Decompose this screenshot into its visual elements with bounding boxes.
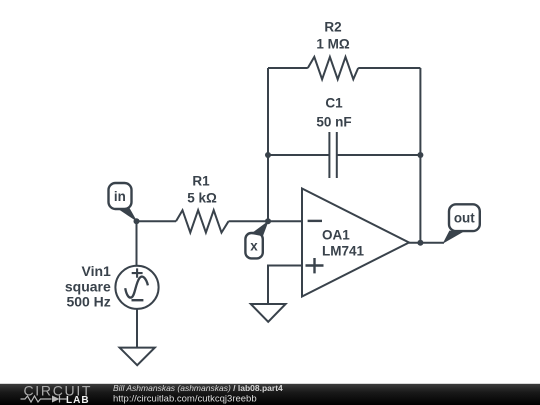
wire in-node to R1 bbox=[137, 220, 177, 222]
svg-text:square: square bbox=[65, 278, 111, 294]
svg-text:R2: R2 bbox=[324, 20, 341, 35]
footer bar bbox=[0, 384, 540, 405]
junction dot node x bbox=[265, 218, 271, 224]
node label box in bbox=[109, 183, 132, 209]
voltage source sine wave bbox=[125, 277, 148, 298]
wire right vertical feedback bbox=[419, 68, 421, 243]
wire top left to R2 bbox=[268, 67, 308, 69]
svg-text:OA1: OA1 bbox=[322, 227, 350, 242]
pointer from out label to wire bbox=[443, 231, 464, 244]
logo diode triangle bbox=[52, 396, 60, 403]
svg-text:LAB: LAB bbox=[66, 395, 90, 405]
svg-text:x: x bbox=[250, 239, 258, 254]
op-amp plus sign bbox=[306, 258, 324, 273]
svg-text:Bill Ashmanskas (ashmanskas) /: Bill Ashmanskas (ashmanskas) / lab08.par… bbox=[113, 383, 283, 393]
wire R1 to op-amp inverting input bbox=[229, 220, 303, 222]
svg-text:LM741: LM741 bbox=[322, 244, 365, 259]
svg-text:1 MΩ: 1 MΩ bbox=[316, 37, 350, 52]
logo schematic glyph: wire resistor diode bbox=[21, 396, 67, 403]
ground symbol below Vin1 bbox=[120, 348, 155, 366]
junction dot C1 left bbox=[265, 152, 271, 158]
svg-text:C1: C1 bbox=[325, 95, 343, 110]
voltage source Vin1 circle bbox=[115, 266, 158, 309]
node label box x bbox=[245, 233, 262, 258]
voltage source minus sign bbox=[132, 299, 144, 301]
node label box out bbox=[449, 204, 480, 231]
wire R2 to right vertical bbox=[358, 67, 420, 69]
wire in-node down to source bbox=[136, 221, 138, 266]
wire op-amp noninverting input bbox=[268, 266, 302, 305]
wire C1 left bbox=[268, 154, 329, 156]
resistor R2 bbox=[308, 57, 358, 79]
capacitor C1 right plate bbox=[336, 132, 338, 178]
op-amp minus sign bbox=[308, 220, 322, 222]
pointer from x label to node bbox=[251, 221, 269, 237]
svg-text:R1: R1 bbox=[192, 174, 210, 189]
junction dot C1 right bbox=[417, 152, 423, 158]
wire op-amp output bbox=[409, 242, 444, 244]
svg-text:5 kΩ: 5 kΩ bbox=[187, 191, 217, 206]
svg-text:out: out bbox=[454, 211, 475, 226]
wire source to ground bbox=[136, 309, 138, 348]
ground symbol at op-amp + input bbox=[251, 304, 286, 322]
wire node x up to feedback bbox=[267, 68, 269, 221]
svg-text:http://circuitlab.com/cutkcqj3: http://circuitlab.com/cutkcqj3reebb bbox=[113, 394, 257, 405]
junction dot output bbox=[417, 240, 423, 246]
svg-text:in: in bbox=[114, 189, 126, 204]
voltage source plus sign bbox=[132, 268, 143, 277]
svg-text:500 Hz: 500 Hz bbox=[66, 294, 110, 310]
pointer from in label to node bbox=[119, 208, 138, 222]
resistor R1 bbox=[176, 210, 229, 232]
junction dot node in bbox=[134, 218, 140, 224]
svg-text:50 nF: 50 nF bbox=[316, 114, 351, 129]
svg-text:Vin1: Vin1 bbox=[81, 263, 111, 279]
wire C1 right bbox=[337, 154, 421, 156]
op-amp U1 triangle bbox=[302, 189, 409, 297]
capacitor C1 left plate bbox=[328, 132, 330, 178]
